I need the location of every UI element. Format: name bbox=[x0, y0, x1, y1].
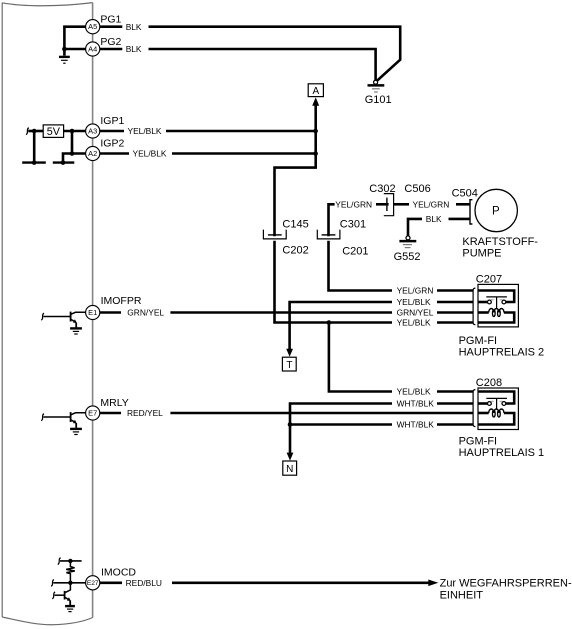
wire PG1 BLK to G101 bbox=[149, 27, 401, 81]
continuation tick (E27 base) bbox=[52, 592, 55, 599]
wire GRN/YEL into C207 bbox=[437, 311, 473, 314]
svg-text:C504: C504 bbox=[452, 187, 478, 199]
ground G101 bbox=[365, 80, 392, 106]
pin A5 (PG1) bbox=[86, 20, 100, 34]
wire A5 to internal ground bbox=[64, 27, 85, 49]
svg-text:C302: C302 bbox=[369, 183, 395, 195]
junction dot row4 / C208 branch bbox=[327, 320, 332, 325]
wire E27 pull-up top bbox=[60, 560, 82, 562]
arrow down to node N bbox=[287, 453, 294, 461]
svg-text:A3: A3 bbox=[88, 127, 97, 136]
connector C301/C201 symbol bbox=[317, 230, 340, 239]
svg-text:C145: C145 bbox=[282, 219, 308, 231]
svg-text:IGP1: IGP1 bbox=[100, 115, 124, 127]
connector C207 bracket bbox=[473, 288, 475, 325]
wire YEL/BLK (C207 row 2) to node T bbox=[290, 302, 392, 350]
svg-text:C506: C506 bbox=[404, 183, 430, 195]
wire A4 to internal ground bbox=[64, 49, 85, 56]
svg-text:GRN/YEL: GRN/YEL bbox=[397, 308, 434, 318]
wire YEL/BLK into C208 bbox=[437, 390, 473, 393]
arrow down to node T bbox=[286, 349, 293, 357]
svg-text:YEL/GRN: YEL/GRN bbox=[413, 199, 450, 209]
svg-text:E27: E27 bbox=[87, 580, 99, 587]
wire WHT/BLK (C208 row 4) from junction bbox=[290, 423, 392, 426]
connector C208 bracket bbox=[473, 390, 475, 427]
wire drop from 5V-right junction to IGP2 row bbox=[71, 131, 74, 154]
svg-text:YEL/BLK: YEL/BLK bbox=[128, 126, 162, 136]
connector C302/C506 symbol bbox=[384, 194, 394, 216]
wire YEL/BLK into C207 row 4 bbox=[437, 321, 473, 324]
fuel pump motor P bbox=[475, 189, 517, 231]
svg-text:YEL/BLK: YEL/BLK bbox=[397, 318, 431, 328]
svg-text:G552: G552 bbox=[394, 251, 421, 263]
svg-text:YEL/BLK: YEL/BLK bbox=[397, 387, 431, 397]
pin A3 (IGP1) bbox=[86, 124, 100, 138]
svg-text:YEL/GRN: YEL/GRN bbox=[397, 286, 434, 296]
svg-text:C201: C201 bbox=[342, 246, 368, 258]
wire PG1 stub from pin A5 bbox=[100, 25, 123, 28]
junction dot A4/A5 ground bbox=[62, 47, 67, 52]
wire YEL/GRN hook down to C301 bbox=[329, 204, 335, 236]
power source 5V box bbox=[43, 125, 63, 138]
svg-text:PG1: PG1 bbox=[100, 14, 121, 26]
svg-text:E7: E7 bbox=[88, 409, 97, 418]
svg-text:WHT/BLK: WHT/BLK bbox=[397, 399, 435, 409]
relay PGM-FI main relay 2 (C207) bbox=[478, 284, 518, 327]
arrow to immobilizer unit bbox=[428, 580, 438, 587]
ground (E1 emitter) bbox=[70, 328, 82, 334]
svg-text:GRN/YEL: GRN/YEL bbox=[127, 308, 164, 318]
svg-text:YEL/GRN: YEL/GRN bbox=[335, 199, 372, 209]
ECM boundary right vertical pin line bbox=[92, 3, 94, 618]
svg-text:A4: A4 bbox=[88, 45, 97, 54]
ground (E7 emitter) bbox=[70, 429, 82, 435]
node N box bbox=[283, 461, 297, 475]
resistor (IMOCD pull-up) bbox=[66, 561, 75, 583]
svg-text:MRLY: MRLY bbox=[100, 397, 128, 409]
wire drop from 5V-left junction to rail bbox=[33, 131, 36, 161]
svg-text:PG2: PG2 bbox=[100, 36, 121, 48]
svg-text:T: T bbox=[286, 360, 292, 371]
rail bar (right) bbox=[53, 161, 75, 163]
transistor Q (MRLY driver) bbox=[43, 412, 85, 428]
svg-text:IMOFPR: IMOFPR bbox=[101, 295, 142, 307]
wire C201 down to relay row 1 bbox=[329, 241, 393, 291]
wire left of 5V box bbox=[28, 130, 43, 133]
wire YEL/GRN to pump connector bbox=[456, 203, 470, 206]
connector C504 symbol bbox=[470, 200, 472, 224]
wire C202 down to relay row 4 bbox=[275, 241, 393, 323]
wire A2 left to rail bbox=[63, 154, 86, 162]
svg-text:EINHEIT: EINHEIT bbox=[440, 589, 484, 601]
junction dot top of resistor bbox=[68, 559, 72, 563]
junction dot right of 5V box bbox=[70, 129, 75, 134]
svg-text:Zur WEGFAHRSPERREN-: Zur WEGFAHRSPERREN- bbox=[440, 577, 572, 589]
wire from row4 junction down to C208 row 1 bbox=[329, 323, 392, 392]
label KRAFTSTOFF-PUMPE bbox=[462, 236, 538, 260]
wire IMOCD stub from pin E27 bbox=[100, 581, 122, 584]
svg-text:PGM-FI: PGM-FI bbox=[459, 436, 498, 448]
svg-text:BLK: BLK bbox=[126, 22, 142, 32]
node T box bbox=[282, 357, 296, 371]
transistor Q (IMOFPR driver) bbox=[43, 312, 85, 328]
svg-text:5V: 5V bbox=[47, 126, 61, 138]
wire YEL/GRN into C207 bbox=[437, 289, 473, 292]
svg-text:IMOCD: IMOCD bbox=[101, 566, 136, 578]
svg-text:YEL/BLK: YEL/BLK bbox=[133, 149, 167, 159]
junction dot IGP1 / A-line bbox=[313, 129, 318, 134]
rail bar (left) bbox=[22, 161, 46, 163]
junction dot E27 row bbox=[68, 581, 72, 585]
continuation tick (E27 top) bbox=[58, 558, 61, 565]
junction dot IGP2 / A-line bbox=[313, 151, 318, 156]
svg-text:RED/YEL: RED/YEL bbox=[127, 408, 163, 418]
wire BLK to G552 bbox=[408, 219, 422, 236]
node A box bbox=[308, 84, 323, 97]
svg-text:C202: C202 bbox=[282, 244, 308, 256]
pin A4 (PG2) bbox=[86, 42, 100, 56]
ground G552 bbox=[394, 236, 421, 263]
continuation tick (E27 mid) bbox=[51, 580, 54, 587]
label PGM-FI HAUPTRELAIS 1 bbox=[459, 436, 545, 459]
svg-text:RED/BLU: RED/BLU bbox=[126, 578, 162, 588]
svg-text:IGP2: IGP2 bbox=[100, 137, 124, 149]
ground (E27 emitter) bbox=[65, 606, 75, 612]
junction dot WHT/BLK branch bbox=[288, 422, 293, 427]
svg-text:PUMPE: PUMPE bbox=[462, 247, 501, 259]
pin E1 (IMOFPR) bbox=[86, 305, 100, 319]
wire PG2 stub from pin A4 bbox=[100, 48, 123, 51]
continuation tick (E7 base) bbox=[41, 414, 44, 421]
svg-text:A: A bbox=[312, 86, 319, 97]
svg-text:A2: A2 bbox=[88, 149, 97, 158]
svg-text:BLK: BLK bbox=[126, 44, 142, 54]
wire IGP2 stub from pin A2 bbox=[100, 152, 129, 155]
wire BLK from pump connector bbox=[449, 218, 471, 221]
ground (ECM internal, PG) bbox=[59, 57, 70, 63]
pin A2 (IGP2) bbox=[86, 146, 100, 160]
svg-text:N: N bbox=[286, 464, 293, 475]
label PGM-FI HAUPTRELAIS 2 bbox=[459, 335, 545, 358]
continuation tick (E1 base) bbox=[41, 313, 44, 320]
svg-text:BLK: BLK bbox=[426, 214, 442, 224]
wire WHT/BLK into C208 row 4 bbox=[437, 423, 473, 426]
label Zur WEGFAHRSPERREN-EINHEIT bbox=[440, 577, 572, 601]
svg-text:G101: G101 bbox=[365, 94, 392, 106]
junction dot on IGP2 row bbox=[70, 151, 75, 156]
svg-text:KRAFTSTOFF-: KRAFTSTOFF- bbox=[462, 236, 538, 248]
wire RED/BLU to immobilizer bbox=[172, 581, 429, 584]
svg-text:YEL/BLK: YEL/BLK bbox=[397, 297, 431, 307]
svg-text:HAUPTRELAIS 2: HAUPTRELAIS 2 bbox=[459, 346, 545, 358]
transistor Q (IMOCD driver) bbox=[65, 583, 71, 605]
svg-text:PGM-FI: PGM-FI bbox=[459, 335, 498, 347]
pin E27 (IMOCD) bbox=[86, 576, 100, 590]
wire IGP2 YEL/BLK bbox=[172, 152, 316, 155]
wire IMOFPR stub from pin E1 bbox=[100, 311, 121, 314]
ECM boundary bottom torn edge bbox=[2, 617, 92, 625]
junction dot on right rail bbox=[61, 160, 66, 165]
wire 5V to pin A3 bbox=[64, 130, 86, 133]
svg-text:C208: C208 bbox=[476, 377, 502, 389]
wire IGP1 YEL/BLK bbox=[166, 130, 316, 133]
svg-text:E1: E1 bbox=[88, 308, 97, 317]
connector C145/C202 symbol bbox=[263, 230, 286, 239]
svg-text:WHT/BLK: WHT/BLK bbox=[397, 420, 435, 430]
svg-text:C301: C301 bbox=[340, 219, 366, 231]
wire YEL/GRN from C506 bbox=[394, 203, 409, 206]
wire YEL/GRN into C302 bbox=[376, 203, 389, 206]
svg-text:A5: A5 bbox=[88, 22, 97, 31]
ECM boundary left torn edge bbox=[1, 3, 3, 617]
junction dot on left rail bbox=[32, 160, 37, 165]
wire GRN/YEL to relay C207 bbox=[170, 311, 392, 314]
wire YEL/BLK into C207 bbox=[437, 301, 473, 304]
wire WHT/BLK into C208 bbox=[437, 402, 473, 405]
svg-text:C207: C207 bbox=[476, 273, 502, 285]
wire PG2 BLK to G101 bbox=[149, 49, 376, 80]
relay PGM-FI main relay 1 (C208) bbox=[478, 388, 518, 430]
wire A-line vertical down to C145 bbox=[275, 105, 316, 237]
wire MRLY stub from pin E7 bbox=[100, 412, 121, 415]
ECM boundary top torn edge bbox=[2, 3, 92, 6]
wire RED/YEL to relay C208 bbox=[170, 412, 473, 415]
wire E27 internal row bbox=[53, 582, 85, 584]
continuation tick (5V) bbox=[26, 128, 29, 135]
wire IGP1 stub from pin A3 bbox=[100, 130, 124, 133]
arrow up into node A bbox=[312, 97, 319, 105]
wire E27 base bbox=[55, 594, 65, 596]
wire WHT/BLK (C208 row 2) to node N bbox=[290, 404, 392, 454]
pin E7 (MRLY) bbox=[86, 406, 100, 420]
junction dot left of 5V box bbox=[32, 129, 37, 134]
svg-text:P: P bbox=[492, 206, 500, 218]
svg-text:HAUPTRELAIS 1: HAUPTRELAIS 1 bbox=[459, 447, 545, 459]
